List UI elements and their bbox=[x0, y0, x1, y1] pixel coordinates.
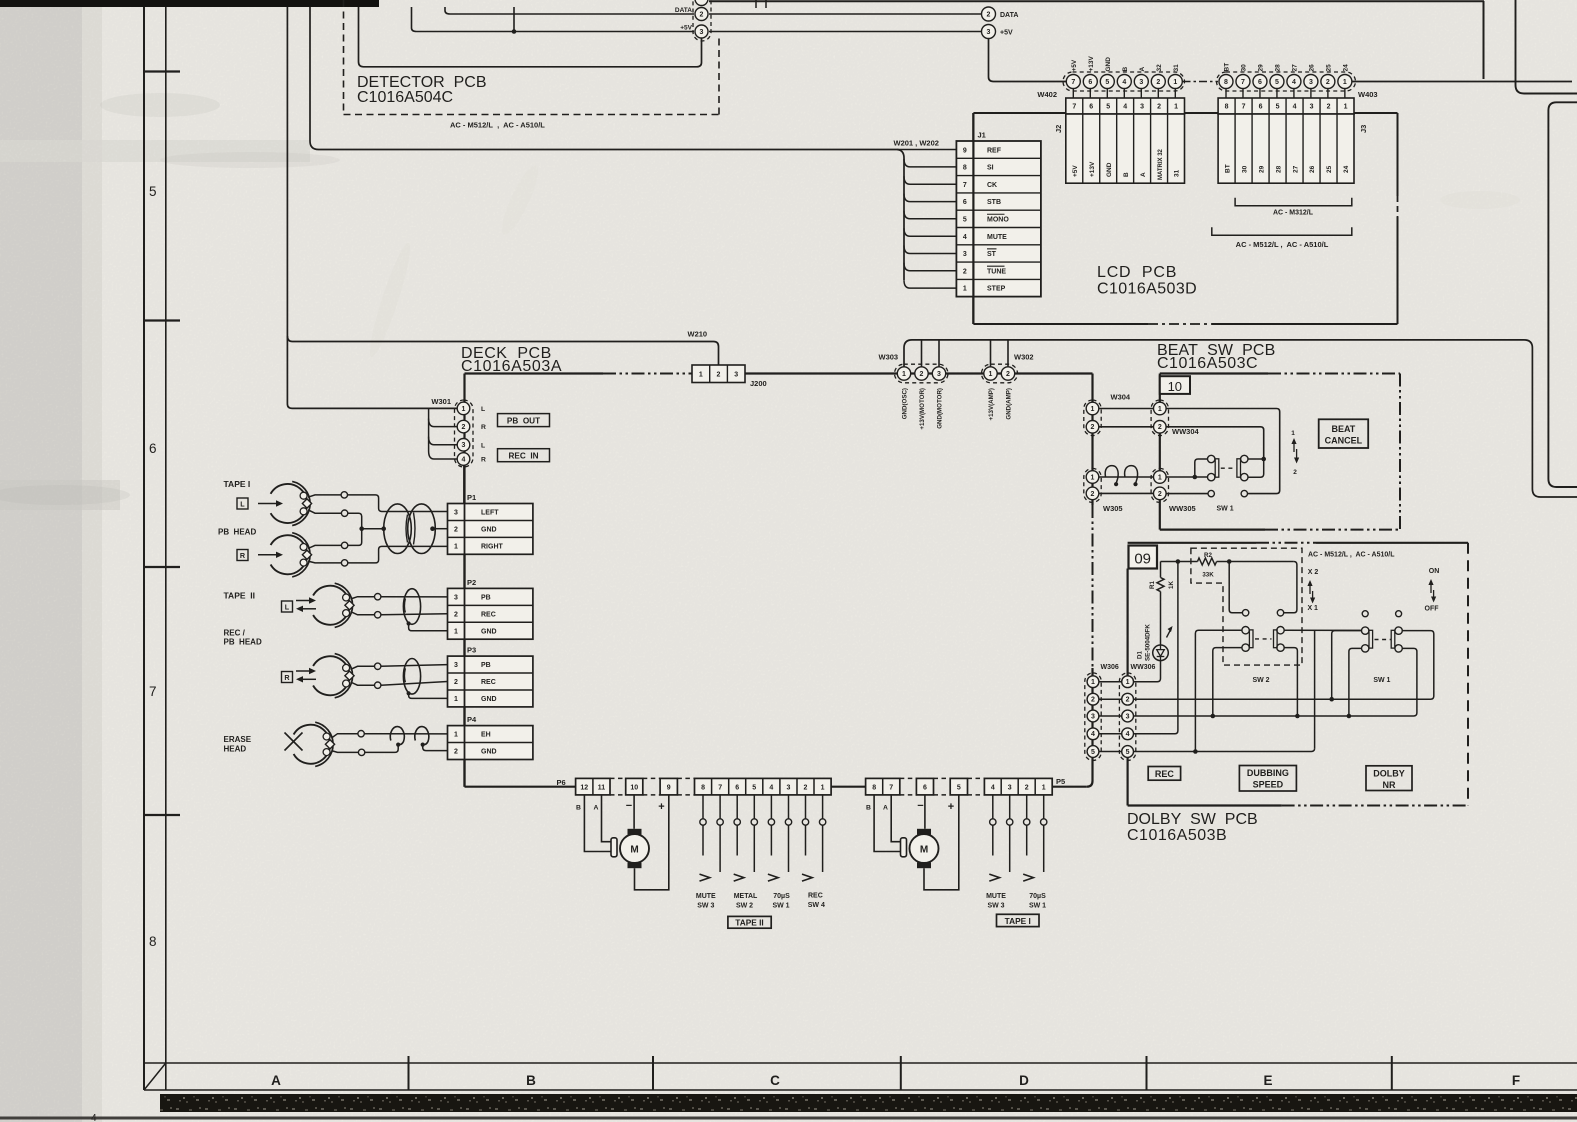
connector J200 bbox=[692, 365, 745, 383]
wire row5 from WW306-5 bbox=[1134, 748, 1315, 751]
svg-text:SW 2: SW 2 bbox=[1252, 677, 1269, 684]
connector P2 bbox=[448, 588, 533, 639]
WW306 pin 3 bbox=[1122, 710, 1134, 722]
svg-text:2: 2 bbox=[1158, 491, 1162, 498]
wire WW305-1 to SW1 left pole bbox=[1166, 476, 1208, 478]
svg-text:2: 2 bbox=[1157, 104, 1161, 111]
connector P6 cells bbox=[576, 778, 610, 795]
wire erase return bbox=[332, 751, 359, 753]
svg-text:DATA: DATA bbox=[675, 7, 692, 14]
W402 pin 4 bbox=[1123, 89, 1125, 99]
svg-text:4: 4 bbox=[1292, 79, 1296, 86]
dashed cell gap bbox=[968, 777, 985, 779]
svg-text:6: 6 bbox=[923, 785, 927, 792]
svg-text:1: 1 bbox=[1091, 679, 1095, 686]
connector J2 bbox=[1066, 98, 1185, 114]
switch wire bbox=[753, 795, 755, 819]
wire left pole top loop bbox=[1195, 459, 1208, 477]
svg-text:SW 1: SW 1 bbox=[1373, 677, 1390, 684]
svg-text:5: 5 bbox=[963, 216, 967, 223]
W301 pin 1 bbox=[457, 402, 470, 415]
svg-text:SW 4: SW 4 bbox=[808, 902, 825, 909]
svg-text:C1016A503A: C1016A503A bbox=[461, 358, 562, 375]
svg-text:CANCEL: CANCEL bbox=[1325, 435, 1363, 445]
wire W306-1 to WW306-1 bbox=[1099, 681, 1122, 683]
svg-text:3: 3 bbox=[454, 510, 458, 517]
LCD PCB box C1016A503D bbox=[972, 113, 974, 324]
upper PCB bottom edge (cut off at top) bbox=[709, 0, 1484, 2]
svg-text:7: 7 bbox=[149, 684, 157, 699]
svg-text:MATRIX 32: MATRIX 32 bbox=[1158, 148, 1164, 180]
deck PCB bottom edge bbox=[1052, 786, 1087, 788]
connector W305 dashed strip bbox=[1084, 468, 1101, 502]
wire gnd out of cable to P1-2 bbox=[433, 528, 448, 530]
svg-text:1: 1 bbox=[821, 785, 825, 792]
cable arc 1 bbox=[390, 727, 404, 745]
svg-text:MUTE: MUTE bbox=[986, 893, 1006, 900]
wire SW2 right pole bottom to row3 bbox=[1284, 648, 1297, 716]
svg-text:3: 3 bbox=[937, 371, 941, 378]
connector J1 bbox=[956, 141, 1041, 297]
svg-text:32: 32 bbox=[1156, 64, 1163, 72]
pin 2 DATA (LCD side) bbox=[982, 7, 996, 21]
svg-text:W301: W301 bbox=[431, 397, 451, 406]
svg-text:3: 3 bbox=[454, 594, 458, 601]
svg-text:5: 5 bbox=[1091, 749, 1095, 756]
wire junction +5V branch bbox=[513, 7, 515, 32]
wire W304-1 to WW304-1 bbox=[1099, 408, 1154, 410]
svg-text:2: 2 bbox=[462, 424, 466, 431]
connector W302 dashed strip bbox=[982, 364, 1018, 383]
dashed cell gap bbox=[610, 777, 626, 779]
dashed cell gap bbox=[643, 777, 660, 779]
wire W305-2 to WW305-2 bbox=[1099, 492, 1154, 494]
throw contacts bbox=[1208, 490, 1214, 496]
dolby box left edge bbox=[1126, 569, 1128, 676]
svg-text:70µS: 70µS bbox=[1029, 893, 1046, 900]
svg-text:5: 5 bbox=[149, 184, 157, 199]
svg-text:3: 3 bbox=[700, 29, 704, 36]
switch wire bbox=[770, 795, 772, 819]
test point bbox=[341, 542, 347, 548]
svg-text:SW 1: SW 1 bbox=[1217, 506, 1234, 513]
svg-text:TAPE I: TAPE I bbox=[1005, 916, 1031, 926]
wire main node (R1 top rail) bbox=[1161, 561, 1198, 563]
wire B to brush bbox=[584, 795, 611, 852]
svg-text:PB OUT: PB OUT bbox=[507, 416, 540, 425]
svg-text:30: 30 bbox=[1241, 165, 1248, 173]
svg-text:P4: P4 bbox=[467, 715, 477, 724]
wire SW2 left pole top to row5 bbox=[1195, 630, 1242, 751]
svg-text:+: + bbox=[948, 801, 954, 813]
bottom page edge line bbox=[0, 1117, 1577, 1120]
dolby SW PCB box C1016A503B top edge bbox=[1128, 542, 1256, 544]
W402 pin 1 bbox=[1174, 89, 1176, 99]
svg-text:NR: NR bbox=[1383, 780, 1396, 790]
svg-text:J3: J3 bbox=[1359, 125, 1368, 133]
svg-text:10: 10 bbox=[1168, 379, 1182, 394]
wire A to brush bbox=[602, 795, 612, 842]
svg-text:ON: ON bbox=[1429, 568, 1440, 575]
svg-text:LCD PCB: LCD PCB bbox=[1097, 264, 1177, 281]
svg-text:GND(MOTOR): GND(MOTOR) bbox=[937, 388, 944, 429]
cable shield loop bbox=[403, 659, 420, 695]
W403 pin 2 bbox=[1327, 89, 1329, 99]
connector J3 bbox=[1218, 98, 1354, 114]
wire head rec bbox=[351, 612, 375, 615]
svg-text:4: 4 bbox=[1293, 104, 1297, 111]
svg-text:28: 28 bbox=[1275, 165, 1282, 173]
svg-text:R: R bbox=[481, 457, 486, 464]
svg-text:1: 1 bbox=[1091, 474, 1095, 481]
switch SW1 (beat) left pole bbox=[1208, 455, 1215, 462]
wire DATA (left segment) bbox=[445, 7, 694, 14]
wire R head return bbox=[308, 561, 341, 563]
wire bundle W201/W202 into J1 bbox=[897, 150, 904, 281]
svg-text:1: 1 bbox=[454, 732, 458, 739]
wire bundle branch bbox=[904, 280, 956, 288]
wire rail drop to row5 bbox=[1314, 630, 1316, 748]
wire head pb bbox=[351, 597, 375, 599]
LED emission arrow bbox=[1167, 628, 1172, 638]
deck PCB left edge bbox=[463, 374, 465, 787]
svg-text:P6: P6 bbox=[557, 778, 566, 787]
svg-text:2: 2 bbox=[963, 268, 967, 275]
wire WW304-1 loop to SW1 throw bbox=[1166, 409, 1280, 494]
svg-text:29: 29 bbox=[1258, 165, 1265, 173]
svg-text:SW 3: SW 3 bbox=[697, 903, 714, 910]
svg-text:1: 1 bbox=[1291, 430, 1295, 437]
svg-text:+13V(AMP): +13V(AMP) bbox=[988, 388, 995, 421]
svg-text:4: 4 bbox=[1126, 731, 1130, 738]
svg-text:1: 1 bbox=[462, 406, 466, 413]
test point bbox=[358, 749, 364, 755]
svg-text:DOLBY: DOLBY bbox=[1373, 768, 1405, 778]
svg-text:METAL: METAL bbox=[734, 893, 758, 900]
svg-text:2: 2 bbox=[1025, 785, 1029, 792]
svg-text:B: B bbox=[526, 1073, 536, 1088]
svg-text:TUNE: TUNE bbox=[987, 268, 1006, 275]
svg-text:R: R bbox=[240, 551, 246, 560]
W403 pin 8 bbox=[1225, 89, 1227, 99]
svg-text:2: 2 bbox=[1326, 79, 1330, 86]
svg-text:AC - M512/L , AC - A510/L: AC - M512/L , AC - A510/L bbox=[1308, 552, 1395, 559]
svg-text:33K: 33K bbox=[1202, 572, 1214, 579]
W305 pin 1 bbox=[1086, 471, 1099, 484]
wire W301-4 to P1 bbox=[463, 465, 465, 503]
svg-text:W302: W302 bbox=[1014, 353, 1034, 362]
W403 pin 7 bbox=[1242, 89, 1244, 99]
svg-text:WW306: WW306 bbox=[1131, 664, 1156, 671]
wire +5V (long run to LCD side) bbox=[709, 31, 982, 33]
svg-text:C1016A503D: C1016A503D bbox=[1097, 281, 1197, 298]
svg-text:2: 2 bbox=[920, 371, 924, 378]
svg-text:1: 1 bbox=[1344, 104, 1348, 111]
svg-text:5: 5 bbox=[1275, 79, 1279, 86]
switch SW1 left pole bbox=[1362, 627, 1369, 634]
W305 pin 2 bbox=[1086, 487, 1099, 500]
connector P5 cells bbox=[866, 778, 900, 795]
W403 pin 3 bbox=[1310, 89, 1312, 99]
svg-text:4: 4 bbox=[991, 785, 995, 792]
arrow into L head bbox=[258, 503, 278, 505]
svg-text:B: B bbox=[866, 805, 871, 812]
svg-text:L: L bbox=[481, 406, 485, 413]
pin 1 (cut) bbox=[695, 0, 708, 6]
REC/PB head R bbox=[313, 656, 349, 695]
WW306 pin 1 bbox=[1122, 676, 1134, 688]
right margin box (rounded) bbox=[1548, 102, 1577, 487]
svg-text:GND: GND bbox=[1106, 162, 1113, 177]
svg-text:X 2: X 2 bbox=[1308, 569, 1319, 576]
svg-text:3: 3 bbox=[987, 29, 991, 36]
connector P6 cells bbox=[626, 778, 643, 795]
wire row3 from WW306-3 to SW1 right bottom bbox=[1134, 648, 1417, 716]
svg-text:A: A bbox=[271, 1073, 281, 1088]
svg-text:1: 1 bbox=[454, 543, 458, 550]
resistor R1 1K bbox=[1157, 578, 1164, 592]
svg-text:1: 1 bbox=[1126, 679, 1130, 686]
svg-text:4: 4 bbox=[1091, 731, 1095, 738]
wire row4 from WW306-4 to R2 rail bbox=[1134, 562, 1178, 734]
wire bus W303/W302 to right margin bbox=[904, 340, 1577, 497]
svg-text:−: − bbox=[626, 800, 632, 812]
connector W402 dashed strip bbox=[1063, 72, 1185, 91]
box DOLBY NR bbox=[1366, 766, 1412, 791]
svg-text:TAPE I: TAPE I bbox=[224, 479, 251, 489]
svg-text:J1: J1 bbox=[978, 131, 986, 140]
W306 pin 1 bbox=[1087, 676, 1099, 688]
svg-text:W305: W305 bbox=[1103, 504, 1123, 513]
svg-text:12: 12 bbox=[580, 785, 588, 792]
svg-text:3: 3 bbox=[1008, 785, 1012, 792]
svg-text:+: + bbox=[658, 801, 664, 813]
beat SW PCB box C1016A503C top edge bbox=[1160, 372, 1268, 374]
border frame left rules bbox=[143, 7, 145, 1090]
svg-text:TAPE II: TAPE II bbox=[224, 591, 256, 601]
svg-text:24: 24 bbox=[1343, 165, 1350, 173]
svg-text:2: 2 bbox=[1006, 371, 1010, 378]
wire rail to SW2 right throw bbox=[1284, 562, 1297, 613]
test point bbox=[375, 594, 381, 600]
wire W306-5 to WW306-5 bbox=[1099, 751, 1122, 753]
svg-text:2: 2 bbox=[1091, 697, 1095, 704]
beat box right edge bbox=[1399, 374, 1401, 530]
wire head rec bbox=[351, 682, 375, 685]
connector WW304 dashed strip bbox=[1151, 400, 1168, 436]
svg-text:6: 6 bbox=[149, 441, 157, 456]
svg-text:M: M bbox=[920, 844, 928, 855]
wire bundle branch bbox=[904, 194, 956, 202]
box TAPE II bbox=[728, 916, 771, 928]
W302 pin 2 bbox=[1001, 367, 1014, 380]
wire branch to pin bbox=[1007, 340, 1009, 367]
svg-text:C1016A503C: C1016A503C bbox=[1157, 355, 1258, 372]
wire shield to gnd pin bbox=[409, 624, 448, 631]
wire erase hot bbox=[332, 734, 358, 738]
wire WW304-2 to SW1 right pole bbox=[1166, 427, 1264, 459]
test point bbox=[341, 560, 347, 566]
svg-text:1: 1 bbox=[902, 371, 906, 378]
box REC IN bbox=[498, 449, 550, 462]
svg-text:P1: P1 bbox=[467, 493, 476, 502]
connector P5 cells bbox=[984, 778, 1052, 795]
switch wire bbox=[736, 795, 738, 819]
svg-text:PB HEAD: PB HEAD bbox=[224, 638, 262, 647]
wire bundle to W301 pins 2-4 bbox=[429, 408, 458, 459]
wire W306-4 to WW306-4 bbox=[1099, 733, 1122, 735]
bottom ruler bbox=[144, 1062, 1577, 1064]
svg-text:4: 4 bbox=[462, 456, 466, 463]
wire branch to pin bbox=[921, 340, 923, 367]
test point bbox=[375, 612, 381, 618]
svg-text:4: 4 bbox=[91, 1113, 97, 1122]
svg-text:7: 7 bbox=[1241, 79, 1245, 86]
dashed cell gap bbox=[934, 777, 951, 779]
svg-text:1: 1 bbox=[699, 372, 703, 379]
wire SW1 left pole top to row2 bbox=[1332, 631, 1362, 700]
sheet ref box 10 bbox=[1160, 376, 1190, 394]
switch wire bbox=[1026, 795, 1028, 819]
connector P4 bbox=[448, 726, 533, 760]
W303 pin 1 bbox=[897, 367, 910, 380]
label L (tape1) bbox=[237, 498, 248, 509]
PB head L (tape1) bbox=[271, 484, 307, 523]
dashed option outline (R2/SW2) bbox=[1191, 548, 1302, 665]
svg-text:4: 4 bbox=[769, 785, 773, 792]
wire bundle branch bbox=[904, 211, 956, 219]
svg-text:70µS: 70µS bbox=[773, 893, 790, 900]
svg-text:10: 10 bbox=[630, 785, 638, 792]
svg-text:2: 2 bbox=[454, 527, 458, 534]
svg-text:25: 25 bbox=[1326, 165, 1333, 173]
arrows R (tape2) bbox=[296, 670, 311, 672]
svg-text:F: F bbox=[1512, 1073, 1520, 1088]
svg-text:3: 3 bbox=[1309, 79, 1313, 86]
wire rail to SW2 left throw bbox=[1229, 562, 1242, 613]
deck left edge segments between tables bbox=[463, 554, 465, 588]
svg-text:AC - M512/L , AC - A510/L: AC - M512/L , AC - A510/L bbox=[1236, 240, 1329, 249]
svg-text:TAPE II: TAPE II bbox=[735, 918, 763, 928]
svg-text:+5V: +5V bbox=[680, 25, 692, 32]
svg-text:3: 3 bbox=[1126, 713, 1130, 720]
X mark bbox=[285, 733, 303, 751]
svg-text:3: 3 bbox=[462, 442, 466, 449]
connector P5 cells bbox=[950, 778, 967, 795]
W403 pin 1 bbox=[1344, 89, 1346, 99]
svg-text:CK: CK bbox=[987, 182, 997, 189]
wire shield2 to gnd bbox=[423, 745, 448, 751]
wire W305-1 to WW305-1 bbox=[1099, 476, 1154, 478]
test point bbox=[341, 510, 347, 516]
arrows L (tape2) bbox=[296, 600, 311, 602]
svg-text:2: 2 bbox=[804, 785, 808, 792]
W402 pin 3 bbox=[1140, 89, 1142, 99]
label R (tape2) bbox=[282, 672, 293, 683]
wire pole top rail SW2-SW1 bbox=[1284, 629, 1362, 631]
erase head bbox=[294, 725, 330, 764]
svg-text:R2: R2 bbox=[1204, 552, 1212, 559]
svg-text:2: 2 bbox=[1091, 424, 1095, 431]
wire from pin3 down to W402 bbox=[989, 39, 1067, 82]
switch SW1 right pole bbox=[1395, 627, 1402, 634]
W303 pin 2 bbox=[915, 367, 928, 380]
cable shield loop bbox=[403, 589, 420, 625]
wire A to brush bbox=[891, 795, 900, 842]
W301 pin 4 bbox=[457, 453, 470, 466]
svg-text:GND: GND bbox=[481, 628, 497, 635]
cable twist arc 1 bbox=[1105, 466, 1118, 483]
svg-text:2: 2 bbox=[717, 372, 721, 379]
wire R head hot to GND node bbox=[308, 545, 341, 548]
W301 pin 2 bbox=[457, 420, 470, 433]
WW304 pin 2 bbox=[1154, 421, 1167, 434]
wire from W403 to right edge bbox=[1352, 81, 1572, 83]
svg-text:LEFT: LEFT bbox=[481, 510, 499, 517]
label L (tape2) bbox=[282, 601, 293, 612]
svg-text:26: 26 bbox=[1309, 165, 1316, 173]
svg-text:P5: P5 bbox=[1056, 777, 1065, 786]
svg-text:4: 4 bbox=[1122, 79, 1126, 86]
svg-text:+5V: +5V bbox=[1072, 165, 1079, 177]
svg-text:3: 3 bbox=[963, 251, 967, 258]
svg-text:6: 6 bbox=[1258, 79, 1262, 86]
connector W303 dashed strip bbox=[895, 364, 949, 383]
svg-text:AC - M512/L , AC - A510/L: AC - M512/L , AC - A510/L bbox=[450, 121, 545, 130]
svg-text:GND: GND bbox=[481, 749, 497, 756]
svg-text:1: 1 bbox=[1158, 406, 1162, 413]
svg-text:2: 2 bbox=[1158, 424, 1162, 431]
svg-text:W304: W304 bbox=[1111, 393, 1131, 402]
svg-text:27: 27 bbox=[1292, 165, 1299, 173]
wire shield to gnd pin bbox=[409, 693, 448, 698]
wire SW2 left pole bottom to row3 bbox=[1213, 648, 1242, 716]
svg-text:29: 29 bbox=[1257, 64, 1264, 72]
motor M bbox=[628, 829, 642, 835]
test point bbox=[375, 663, 381, 669]
W402 pin 2 bbox=[1157, 89, 1159, 99]
svg-text:W403: W403 bbox=[1358, 90, 1378, 99]
svg-text:1: 1 bbox=[1158, 474, 1162, 481]
svg-text:GND: GND bbox=[1105, 57, 1112, 72]
test point bbox=[375, 682, 381, 688]
W402 pin 5 bbox=[1106, 89, 1108, 99]
wire minus to motor bbox=[924, 795, 926, 829]
LED D1 SE-5004DFK bbox=[1153, 645, 1169, 661]
svg-text:4: 4 bbox=[1123, 104, 1127, 111]
svg-text:26: 26 bbox=[1308, 64, 1315, 72]
svg-text:W210: W210 bbox=[688, 330, 708, 339]
connector WW305 dashed strip bbox=[1151, 468, 1168, 502]
wire R2 right rail bbox=[1217, 561, 1294, 563]
svg-text:D: D bbox=[1019, 1073, 1029, 1088]
svg-text:1: 1 bbox=[1042, 785, 1046, 792]
brush bar bbox=[611, 838, 617, 857]
wire minus to motor bbox=[633, 795, 635, 829]
motor M bbox=[917, 829, 931, 835]
svg-text:STEP: STEP bbox=[987, 286, 1006, 293]
svg-text:3: 3 bbox=[1140, 104, 1144, 111]
svg-text:1: 1 bbox=[454, 696, 458, 703]
svg-text:5: 5 bbox=[752, 785, 756, 792]
svg-text:1: 1 bbox=[989, 371, 993, 378]
pin 2 DATA bbox=[695, 8, 708, 21]
svg-text:SE-5004DFK: SE-5004DFK bbox=[1145, 624, 1152, 661]
svg-text:BT: BT bbox=[1224, 63, 1231, 72]
wire DATA (long run to LCD side) bbox=[709, 13, 982, 15]
beat box bottom edge bbox=[1160, 528, 1265, 530]
connector WW306 dashed strip bbox=[1119, 673, 1135, 761]
